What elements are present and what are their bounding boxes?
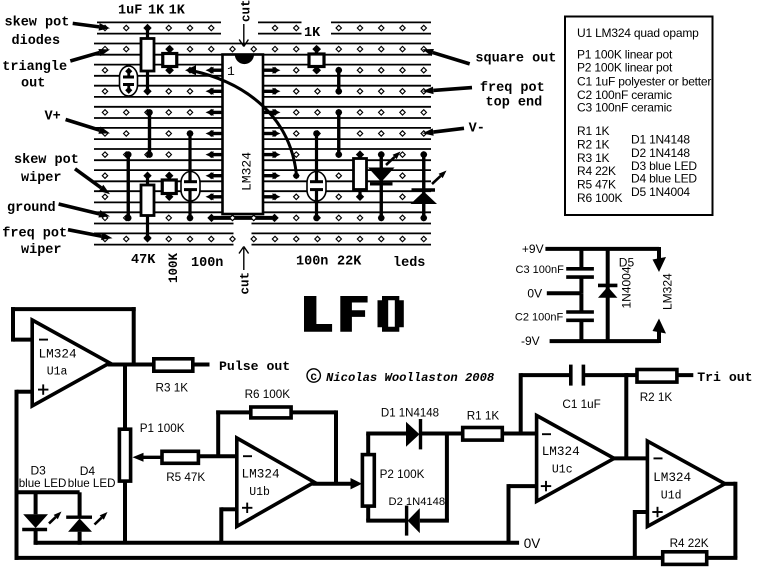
label: V+ bbox=[45, 110, 111, 134]
label D4 blue LED bbox=[68, 464, 116, 490]
resistor 1K (vertical, col 3 rows 1-4) bbox=[141, 24, 154, 96]
svg-text:0V: 0V bbox=[527, 287, 542, 301]
svg-text:U1b: U1b bbox=[249, 486, 270, 499]
svg-text:R4 22K: R4 22K bbox=[577, 164, 616, 178]
label: triangle out bbox=[2, 49, 110, 92]
svg-text:skew pot: skew pot bbox=[14, 153, 79, 168]
wire P2 bottom to D2 bbox=[366, 506, 406, 520]
svg-text:D1 1N4148: D1 1N4148 bbox=[631, 132, 690, 146]
svg-text:U1c: U1c bbox=[552, 464, 573, 477]
wire P1 bottom to 0V rail bbox=[123, 481, 127, 543]
label: skew pot diodes bbox=[5, 16, 111, 50]
svg-text:R6 100K: R6 100K bbox=[245, 388, 291, 401]
svg-text:+9V: +9V bbox=[522, 242, 544, 256]
svg-text:P2 100K: P2 100K bbox=[380, 468, 425, 481]
svg-text:1K: 1K bbox=[169, 4, 186, 19]
svg-text:R4 22K: R4 22K bbox=[670, 537, 709, 550]
svg-text:LM324: LM324 bbox=[661, 273, 675, 310]
wire U1c output to U1d- bbox=[612, 373, 647, 458]
resistor 1K (square symbol, col 11 rows 2-3) bbox=[309, 45, 324, 75]
LED D4 blue bbox=[66, 492, 107, 544]
wire U1d+ input bbox=[635, 510, 648, 558]
svg-text:LM324: LM324 bbox=[653, 470, 691, 485]
label: freq pot wiper bbox=[2, 227, 112, 259]
parts list box bbox=[565, 17, 713, 216]
svg-text:LM324: LM324 bbox=[240, 152, 255, 191]
wire R2 input bbox=[626, 373, 637, 377]
svg-text:100n: 100n bbox=[191, 256, 223, 271]
svg-text:c: c bbox=[310, 371, 317, 384]
svg-text:D2 1N4148: D2 1N4148 bbox=[631, 146, 690, 160]
svg-text:U1d: U1d bbox=[661, 490, 682, 503]
svg-text:U1a: U1a bbox=[47, 366, 68, 379]
wire -9V rail bbox=[550, 339, 659, 343]
svg-text:1: 1 bbox=[227, 64, 235, 79]
capacitor 100n (col 5 rows 6-10) bbox=[181, 130, 200, 221]
svg-text:cut: cut bbox=[240, 0, 254, 22]
svg-text:100K: 100K bbox=[167, 252, 181, 283]
resistor 1K (square symbol, col 4 rows 2-3) bbox=[163, 45, 177, 75]
diode D5 1N4004 bbox=[598, 249, 617, 341]
svg-text:D1 1N4148: D1 1N4148 bbox=[381, 408, 439, 420]
P1 wiper arrow and wire from R5 bbox=[133, 453, 163, 462]
svg-text:LM324: LM324 bbox=[39, 347, 77, 362]
capacitor 1uF (col 2 rows 3-4) bbox=[120, 66, 138, 96]
wire U1c+ input bbox=[509, 484, 537, 543]
svg-text:D2 1N4148: D2 1N4148 bbox=[389, 496, 446, 508]
value labels: 1uF 1K 1K (top) bbox=[118, 4, 186, 19]
capacitor C3 100nF bbox=[566, 249, 594, 293]
wire R6 feedback bbox=[216, 410, 336, 483]
wire 0V stub bbox=[547, 291, 582, 295]
capacitor C2 100nF bbox=[566, 293, 594, 341]
svg-text:R3 1K: R3 1K bbox=[577, 151, 610, 165]
svg-text:square out: square out bbox=[475, 52, 556, 67]
jumper wire col 12 rows 5-7 bbox=[335, 109, 342, 158]
diode D2 1N4148 bbox=[407, 506, 420, 536]
resistor R5 47K bbox=[162, 451, 198, 463]
svg-text:diodes: diodes bbox=[12, 34, 61, 49]
svg-text:out: out bbox=[21, 77, 45, 92]
svg-text:triangle: triangle bbox=[2, 60, 67, 75]
svg-text:C3 100nF ceramic: C3 100nF ceramic bbox=[577, 101, 672, 115]
svg-text:C2 100nF: C2 100nF bbox=[515, 312, 564, 324]
jumper wire col 2 rows 7-10 bbox=[125, 151, 132, 221]
diode D1 1N4148 bbox=[406, 419, 421, 449]
value labels: 47K 100K 100n 100n 22K leds (bottom) bbox=[131, 252, 425, 283]
stripboard holes bbox=[102, 25, 426, 241]
svg-text:R2 1K: R2 1K bbox=[577, 137, 610, 151]
jumper wire col 3 rows 5-7 bbox=[146, 109, 153, 158]
wire +9V rail bbox=[545, 247, 659, 251]
potentiometer P1 100K bbox=[119, 429, 130, 481]
svg-text:R5 47K: R5 47K bbox=[577, 178, 616, 192]
wire U1a output to P1 bbox=[123, 363, 127, 430]
wire R2 to Tri out bbox=[677, 373, 693, 377]
svg-text:C1 1uF polyester or better: C1 1uF polyester or better bbox=[577, 75, 711, 89]
svg-text:wiper: wiper bbox=[21, 171, 62, 186]
svg-text:LM324: LM324 bbox=[242, 467, 280, 482]
svg-text:V+: V+ bbox=[45, 110, 61, 125]
svg-text:C3 100nF: C3 100nF bbox=[516, 264, 565, 276]
svg-text:R1 1K: R1 1K bbox=[577, 124, 610, 138]
svg-text:D4: D4 bbox=[80, 464, 96, 478]
svg-text:R6 100K: R6 100K bbox=[577, 191, 622, 205]
svg-text:R1 1K: R1 1K bbox=[467, 410, 500, 423]
wire C1 feedback left bbox=[521, 373, 571, 433]
svg-text:1N4004: 1N4004 bbox=[620, 266, 634, 308]
svg-text:P2 100K linear pot: P2 100K linear pot bbox=[577, 61, 673, 75]
svg-text:leds: leds bbox=[393, 256, 425, 271]
label: skew pot wiper bbox=[14, 153, 110, 194]
IC pins (7 left, 7 right) bbox=[206, 67, 281, 201]
wire U1d output to R4 bbox=[723, 482, 736, 558]
wire junction to R1 bbox=[447, 432, 463, 436]
svg-text:1uF: 1uF bbox=[118, 4, 142, 19]
svg-text:skew pot: skew pot bbox=[5, 16, 70, 31]
potentiometer P2 100K bbox=[362, 455, 374, 507]
resistor R4 22K bbox=[663, 552, 707, 565]
label: ground bbox=[7, 201, 110, 217]
svg-text:U1 LM324 quad opamp: U1 LM324 quad opamp bbox=[577, 26, 699, 40]
resistor R3 1K bbox=[154, 359, 193, 371]
svg-text:D3: D3 bbox=[31, 464, 47, 478]
svg-text:D5 1N4004: D5 1N4004 bbox=[631, 185, 690, 199]
wire 0V rail (middle) bbox=[36, 541, 519, 545]
svg-text:LM324: LM324 bbox=[542, 444, 580, 459]
svg-text:D4 blue LED: D4 blue LED bbox=[631, 172, 697, 186]
op-amp U1a bbox=[32, 320, 110, 406]
svg-text:freq pot: freq pot bbox=[480, 81, 545, 96]
wire U1b+ input bbox=[221, 507, 237, 542]
wire U1a output bbox=[108, 363, 154, 367]
svg-text:cut: cut bbox=[239, 272, 253, 295]
wire P2 top to D1 bbox=[366, 434, 406, 455]
white backdrop for 1K label on row 1 bbox=[302, 20, 332, 38]
wire R3 to pulse out bbox=[193, 363, 210, 367]
wire C1 right to output node bbox=[583, 373, 628, 377]
capacitor 100n (col 11 rows 6-10) bbox=[307, 130, 326, 221]
wire D2 to junction bbox=[420, 519, 449, 523]
svg-text:blue LED: blue LED bbox=[19, 477, 67, 490]
op-amp IC U1 LM324 (stripboard) bbox=[223, 55, 264, 215]
svg-text:V-: V- bbox=[469, 122, 485, 137]
wire U1a feedback loop bbox=[11, 307, 136, 364]
svg-text:0V: 0V bbox=[524, 536, 541, 551]
resistor 47K (vertical, col 3 rows 8-11) bbox=[141, 172, 154, 243]
resistor 22K (vertical, col 13 rows 7-9) bbox=[354, 150, 367, 201]
svg-text:R2 1K: R2 1K bbox=[640, 391, 673, 404]
wire LED bottom joining rail bbox=[34, 541, 38, 545]
svg-text:ground: ground bbox=[7, 201, 56, 216]
wire bottom rail bbox=[15, 556, 738, 560]
wire R1 to U1c- bbox=[502, 432, 536, 436]
svg-text:P1 100K linear pot: P1 100K linear pot bbox=[577, 48, 673, 62]
svg-text:C1 1uF: C1 1uF bbox=[562, 398, 600, 411]
cut mark (bottom) bbox=[239, 247, 253, 295]
wire U1b output with arrow into P2 wiper bbox=[312, 478, 362, 489]
stripboard strips bbox=[94, 22, 431, 244]
svg-text:freq pot: freq pot bbox=[2, 227, 67, 242]
svg-text:-9V: -9V bbox=[521, 334, 540, 348]
LED D (col 14 rows 7-10, pointing down) bbox=[368, 151, 401, 221]
capacitor C1 1uF bbox=[571, 365, 584, 386]
svg-text:22K: 22K bbox=[337, 255, 362, 270]
svg-text:Nicolas Woollaston 2008: Nicolas Woollaston 2008 bbox=[326, 371, 495, 385]
jumper wire col 12 rows 3-4 bbox=[335, 67, 342, 95]
svg-text:1K: 1K bbox=[304, 26, 321, 41]
copyright note bbox=[307, 369, 495, 385]
svg-text:1K: 1K bbox=[148, 4, 165, 19]
svg-text:47K: 47K bbox=[131, 253, 156, 268]
svg-text:Tri out: Tri out bbox=[697, 370, 752, 385]
wire D1 to R1 junction bbox=[421, 432, 447, 521]
svg-text:wiper: wiper bbox=[21, 243, 62, 258]
LED D (col 16 rows 7-10, pointing up) bbox=[411, 151, 447, 221]
wire to LM324 V+ pin with arrow bbox=[653, 247, 667, 272]
resistor 100K (square symbol, col 4 rows 8-9) bbox=[162, 172, 176, 202]
resistor R6 100K bbox=[251, 407, 291, 418]
wire R5 to U1b- bbox=[198, 454, 236, 458]
wire LED top rail bbox=[17, 490, 80, 494]
op-amp U1d bbox=[647, 441, 725, 526]
op-amp U1c bbox=[537, 416, 615, 502]
svg-text:top end: top end bbox=[486, 96, 543, 111]
op-amp U1b bbox=[237, 438, 314, 526]
wire from -9V to LM324 V- pin with arrow bbox=[653, 319, 667, 344]
cut mark (top) bbox=[239, 0, 253, 47]
resistor R1 1K bbox=[463, 428, 503, 441]
label: V- bbox=[422, 122, 485, 137]
svg-text:Pulse out: Pulse out bbox=[219, 359, 290, 374]
wire row 10 under IC bbox=[207, 214, 278, 222]
svg-text:blue LED: blue LED bbox=[68, 477, 116, 490]
LED D3 blue bbox=[22, 492, 61, 544]
resistor R2 1K bbox=[637, 370, 677, 383]
label D3 blue LED bbox=[19, 464, 67, 491]
title LFO bbox=[304, 296, 404, 332]
svg-text:R3 1K: R3 1K bbox=[156, 382, 189, 395]
label: square out bbox=[422, 49, 556, 67]
svg-text:R5 47K: R5 47K bbox=[166, 471, 205, 484]
wire U1a+ input bbox=[17, 390, 33, 560]
svg-text:100n: 100n bbox=[296, 255, 328, 270]
label: freq pot top end bbox=[422, 81, 544, 111]
svg-text:P1 100K: P1 100K bbox=[140, 422, 185, 435]
wire link (curved, col 5 row 3 to col 10 row 8) bbox=[185, 65, 299, 179]
